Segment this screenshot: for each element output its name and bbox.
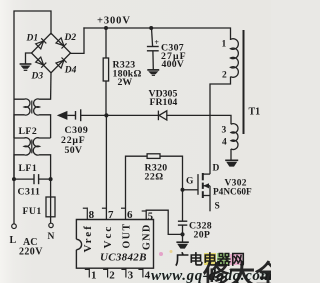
svg-text:50V: 50V [65,145,83,156]
wire: pin 5 to C328 ground node [146,210,182,234]
diode D2 [56,38,67,49]
capacitor C328 [178,190,187,242]
pin 7 stub [102,207,107,209]
svg-text:UC3842B: UC3842B [100,251,147,263]
pin 6 stub [121,207,126,209]
svg-text:4: 4 [222,138,227,148]
pin 2 stub [103,268,108,277]
svg-text:1: 1 [222,40,227,50]
svg-text:D4: D4 [64,66,77,76]
diode D3 [36,57,47,68]
drain bend [203,173,210,175]
svg-text:L: L [10,235,17,246]
left winding [14,99,30,138]
wire: bridge left vertex to ground [26,53,32,64]
svg-text:3: 3 [222,126,227,136]
svg-text:D2: D2 [64,33,77,43]
svg-text:LF2: LF2 [19,126,38,137]
svg-text:6: 6 [127,209,133,221]
node: rail/R323 junction [104,26,108,30]
svg-text:+: + [154,38,159,47]
watermark: www address [151,268,273,283]
svg-text:D3: D3 [31,72,44,82]
body tap with arrow [203,185,210,187]
right winding [33,138,50,179]
left winding [14,138,30,179]
fuse FU1 [46,179,55,223]
svg-text:2: 2 [109,270,115,282]
inductor LF2 (common-mode choke) [14,99,51,138]
svg-text:GND: GND [142,223,153,250]
svg-text:+300V: +300V [97,16,131,27]
source tap [203,195,210,197]
capacitor C311 (across line) [14,174,51,184]
body arrow [203,183,209,188]
svg-text:5: 5 [148,211,153,222]
svg-text:S: S [215,202,220,212]
ground (winding 4) [225,160,238,166]
diode D4 [56,58,67,69]
gate wire [183,189,199,191]
ground (C328) [176,242,188,248]
svg-text:修大全: 修大全 [202,260,271,283]
watermark: pink speck [159,252,163,256]
svg-text:22Ω: 22Ω [145,171,164,182]
svg-text:FU1: FU1 [23,206,42,217]
pin 1 stub [85,268,90,277]
svg-text:N: N [48,232,55,242]
pin 8 stub [83,208,88,220]
channel segments [202,173,204,180]
diode VD305 [158,111,166,121]
svg-text:D1: D1 [26,34,39,44]
wire: left leg + top loop to bridge top [14,11,51,224]
wire: right leg from bridge bottom [50,73,52,99]
gate bar [197,174,199,195]
terminal L [12,224,17,229]
transformer T1 aux winding 3-4 [231,124,238,160]
watermark: red characters [202,260,282,283]
svg-text:400V: 400V [162,59,185,70]
wire: bridge diamond outline [32,33,71,73]
resistor R320 [126,154,183,220]
svg-text:D: D [213,164,220,174]
inductor LF1 (common-mode choke) [14,138,51,179]
node: C311 left junction [12,177,16,181]
wire: winding2 to MOSFET drain [210,77,231,175]
svg-text:Vcc: Vcc [102,225,114,249]
pin 4 stub [138,268,143,277]
capacitor C309 [76,109,81,121]
svg-text:8: 8 [89,209,95,221]
capacitor C307 [147,28,159,69]
svg-text:1: 1 [91,270,97,282]
svg-text:FR104: FR104 [150,97,178,108]
resistor R323 [103,28,108,115]
node: rail/C307 junction [149,26,153,30]
pin 5 stub [142,210,147,212]
ground (C307) [147,70,159,75]
svg-text:2: 2 [222,71,227,81]
transformer core [243,30,245,134]
svg-text:T1: T1 [249,107,261,118]
wire: Vcc line to pin 7 [105,115,107,219]
wire: Vcc node horizontal line [68,115,232,124]
wire: bridge right vertex to +300V rail [71,28,85,53]
core line [31,101,33,114]
svg-text:OUT: OUT [122,222,133,248]
source vertical [209,186,211,212]
arrow (off-page, to C309 line) [57,111,68,120]
svg-text:7: 7 [108,209,114,221]
svg-text:4: 4 [145,270,151,282]
node: Vcc junction (R323/C309/VD305/pin7) [104,113,108,117]
svg-text:C311: C311 [18,186,41,197]
svg-text:220V: 220V [19,247,43,258]
svg-text:Vref: Vref [82,224,94,252]
op-amp U1: UC3842B IC body [76,220,153,269]
ground (bridge left vertex) [20,64,32,70]
svg-text:G: G [186,177,194,187]
svg-text:3: 3 [128,270,134,282]
svg-text:2W: 2W [118,77,133,88]
node: C311 right junction [49,177,53,181]
terminal N [49,223,53,227]
right winding [34,99,51,138]
MOSFET V302 [183,173,211,211]
svg-text:LF1: LF1 [19,163,38,174]
transformer T1 primary winding 1-2 [231,39,239,77]
node: gate junction [181,188,185,192]
svg-text:20P: 20P [194,229,211,240]
wire: +300V rail [84,28,231,39]
watermark: 广电电器网 [175,252,245,269]
svg-text:P4NC60F: P4NC60F [213,188,252,198]
diode D1 [36,38,47,49]
node: C328 bottom junction [180,232,184,236]
core line [31,140,33,154]
pin 3 stub [121,268,126,277]
